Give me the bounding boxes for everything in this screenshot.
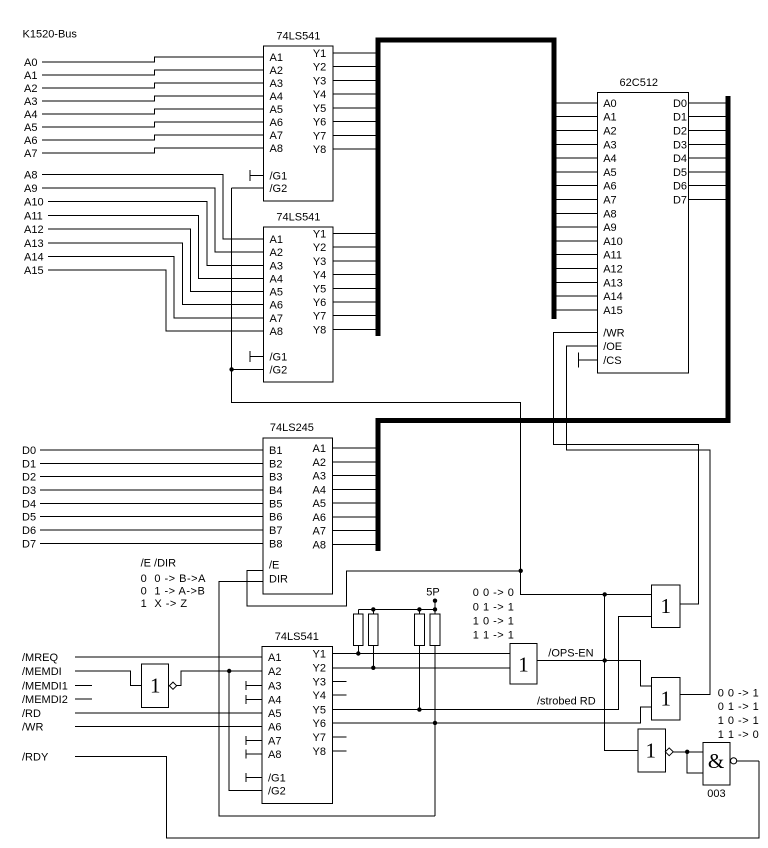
wire U2 Y1 to address bus [333, 233, 376, 235]
signal A9 label and wire [24, 183, 264, 252]
wire U3 A2 from address bus [554, 130, 597, 132]
signal D7 label and wire [22, 538, 263, 550]
OR gate (/WR logic) [652, 585, 680, 627]
signal D0 label and wire [22, 445, 263, 457]
label 5P supply [426, 587, 439, 610]
wire U1 Y7 to address bus [333, 135, 376, 137]
svg-text:Y1: Y1 [313, 229, 326, 241]
svg-text:A1: A1 [270, 234, 283, 246]
svg-text:A13: A13 [603, 277, 623, 289]
svg-text:A5: A5 [270, 287, 283, 299]
svg-text:1: 1 [518, 653, 529, 677]
transceiver U4 74LS245 [263, 422, 333, 594]
resistor R2 (pull-up) [368, 609, 378, 645]
signal A4 label and wire [24, 109, 264, 121]
svg-text:A6: A6 [270, 300, 283, 312]
svg-text:B2: B2 [269, 458, 282, 470]
svg-text:/RD: /RD [22, 708, 41, 720]
junction /OPS-EN output node [603, 658, 607, 662]
signal /MEMDI1 label and stub [22, 680, 92, 692]
svg-text:A0: A0 [24, 57, 37, 69]
wire U5 Y3 stub [333, 680, 347, 682]
svg-text:A3: A3 [24, 96, 37, 108]
svg-text:A3: A3 [268, 681, 281, 693]
signal D3 label and wire [22, 485, 263, 497]
wire U1 Y5 to address bus [333, 107, 376, 109]
svg-text:A3: A3 [270, 260, 283, 272]
svg-text:A15: A15 [24, 265, 44, 277]
signal A7 label and wire [24, 148, 264, 160]
svg-text:D1: D1 [22, 458, 36, 470]
svg-text:A5: A5 [268, 708, 281, 720]
svg-text:62C512: 62C512 [620, 77, 659, 89]
U2 /G1 tie T-bar [250, 351, 264, 362]
wire U1 Y3 to address bus [333, 79, 376, 81]
svg-text:Y1: Y1 [313, 48, 326, 60]
junction pull-up R3 on Y5 [417, 707, 421, 711]
NAND gate 003 [703, 743, 737, 785]
signal /WR label and wire [22, 722, 262, 734]
svg-text:B5: B5 [269, 498, 282, 510]
svg-text:1: 1 [661, 594, 672, 618]
wire node vertical to inverter input [605, 594, 638, 750]
svg-text:/WR: /WR [22, 722, 43, 734]
svg-text:5P: 5P [426, 587, 439, 599]
junction gate-A input node [603, 592, 607, 596]
svg-text:74LS541: 74LS541 [275, 631, 319, 643]
wire NAND output to /RDY feedback [737, 760, 759, 762]
svg-text:A14: A14 [603, 291, 623, 303]
junction pull-up R1 on Y1 [356, 651, 360, 655]
wire U4 A5 to data bus [333, 502, 381, 504]
wire /OE net from gate to U3 [567, 346, 711, 694]
wire U4 A1 to data bus [333, 447, 381, 449]
svg-text:74LS541: 74LS541 [276, 31, 320, 43]
memory U3 62C512 [597, 77, 688, 373]
svg-text:A4: A4 [270, 273, 283, 285]
svg-text:1 1 -> 0: 1 1 -> 0 [718, 729, 760, 741]
signal /RD label and wire [22, 708, 262, 720]
svg-text:0 1 -> A->B: 0 1 -> A->B [141, 585, 206, 597]
buffer U2 74LS541 (second) [264, 212, 334, 383]
signal A15 label and wire [24, 265, 264, 331]
U5 A8 tie T-bar [246, 750, 262, 759]
signal /RDY label and feedback wire [22, 751, 759, 838]
junction pull-up R4 / DIR on Y6 [433, 721, 437, 725]
signal /MEMDI2 label and stub [22, 694, 92, 706]
svg-text:0 0 -> B->A: 0 0 -> B->A [141, 573, 206, 585]
svg-text:A1: A1 [313, 443, 326, 455]
wire U5 Y2 to OR gate input 2 [333, 667, 511, 669]
svg-text:D5: D5 [673, 167, 687, 179]
svg-text:/G1: /G1 [268, 772, 286, 784]
wire U4 A7 to data bus [333, 530, 381, 532]
svg-text:A4: A4 [313, 484, 326, 496]
svg-text:Y4: Y4 [313, 690, 326, 702]
svg-text:/MREQ: /MREQ [22, 652, 59, 664]
svg-text:/OE: /OE [603, 341, 622, 353]
svg-text:A2: A2 [270, 65, 283, 77]
wire U3 A1 from address bus [554, 116, 597, 118]
wire DIR to pull-up column [219, 582, 435, 817]
svg-text:&: & [708, 749, 724, 773]
signal A6 label and wire [24, 135, 264, 147]
svg-text:D2: D2 [673, 126, 687, 138]
svg-text:A5: A5 [603, 167, 616, 179]
svg-text:/E: /E [269, 560, 279, 572]
svg-text:A9: A9 [603, 222, 616, 234]
svg-text:B3: B3 [269, 472, 282, 484]
svg-text:A2: A2 [268, 666, 281, 678]
U5 A3 tie T-bar [246, 681, 262, 690]
svg-text:A6: A6 [268, 722, 281, 734]
signal D6 label and wire [22, 525, 263, 537]
wire U3 A0 from address bus [554, 102, 597, 104]
svg-text:Y8: Y8 [313, 324, 326, 336]
svg-text:D2: D2 [22, 472, 36, 484]
wire U1 Y6 to address bus [333, 121, 376, 123]
svg-text:Y2: Y2 [313, 62, 326, 74]
svg-text:Y7: Y7 [313, 131, 326, 143]
svg-text:A2: A2 [603, 126, 616, 138]
wire U3 A10 from address bus [554, 240, 597, 242]
wire U1 Y1 to address bus [333, 52, 376, 54]
svg-text:D6: D6 [22, 525, 36, 537]
signal A2 label and wire [24, 83, 264, 95]
svg-text:Y2: Y2 [313, 242, 326, 254]
svg-text:A4: A4 [24, 109, 37, 121]
svg-text:1 X -> Z: 1 X -> Z [141, 598, 188, 610]
junction /E joins /G2 net [519, 569, 523, 573]
svg-text:74LS541: 74LS541 [276, 212, 320, 224]
svg-text:D3: D3 [22, 485, 36, 497]
signal A1 label and wire [24, 70, 264, 82]
text truth table NAND [718, 687, 760, 741]
wire inverter to NAND inputs [673, 752, 703, 773]
svg-text:D7: D7 [673, 195, 687, 207]
OR gate /OPS-EN [510, 643, 537, 683]
wire U5 Y5 /strobed RD to gate [333, 617, 652, 710]
svg-text:A14: A14 [24, 251, 44, 263]
svg-text:D3: D3 [673, 139, 687, 151]
svg-text:D7: D7 [22, 538, 36, 550]
wire U3 A12 from address bus [554, 268, 597, 270]
wire /WR net from gate to U3 [554, 332, 699, 604]
svg-text:0 1 -> 1: 0 1 -> 1 [718, 701, 760, 713]
svg-text:Y5: Y5 [313, 705, 326, 717]
junction rail R2 [371, 607, 375, 611]
svg-text:A0: A0 [603, 98, 616, 110]
signal D4 label and wire [22, 498, 263, 510]
wire U3 D5 to data bus [689, 171, 729, 173]
svg-text:D0: D0 [22, 445, 36, 457]
svg-text:A6: A6 [24, 135, 37, 147]
wire U4 A4 to data bus [333, 488, 381, 490]
svg-text:/G1: /G1 [270, 170, 288, 182]
svg-text:003: 003 [707, 788, 725, 800]
wire U3 A6 from address bus [554, 185, 597, 187]
svg-text:A10: A10 [603, 236, 623, 248]
data bus (thick) [378, 96, 728, 551]
wire U3 A5 from address bus [554, 171, 597, 173]
U3 /CS tie T-bar [579, 353, 598, 368]
svg-text:A2: A2 [270, 247, 283, 259]
wire U2 Y3 to address bus [333, 260, 376, 262]
svg-text:A6: A6 [313, 512, 326, 524]
wire R3 bottom to Y5 [418, 645, 420, 709]
signal A14 label and wire [24, 251, 264, 317]
svg-text:/OPS-EN: /OPS-EN [548, 648, 593, 660]
wire U2 Y2 to address bus [333, 246, 376, 248]
wire U3 A14 from address bus [554, 295, 597, 297]
wire U3 D6 to data bus [689, 185, 729, 187]
junction pull-up R2 on Y2 [371, 666, 375, 670]
U5 A4 tie T-bar [246, 695, 262, 704]
wire U5 Y8 stub [333, 750, 347, 752]
svg-text:0 1 -> 1: 0 1 -> 1 [473, 601, 515, 613]
svg-text:1 0 -> 1: 1 0 -> 1 [718, 715, 760, 727]
svg-text:Y4: Y4 [313, 270, 326, 282]
wire /G2 net vertical U1 to U2 [231, 188, 233, 370]
wire inverter output to U5 A2 and /G2 [177, 671, 263, 790]
wire U3 A7 from address bus [554, 199, 597, 201]
wire U1 /G2 stub [232, 187, 264, 189]
svg-text:Y8: Y8 [313, 144, 326, 156]
wire U4 A3 to data bus [333, 475, 381, 477]
wire R4 bottom through Y6 to DIR line [434, 645, 436, 816]
wire R1 bottom to Y1 [357, 645, 359, 653]
svg-text:/MEMDI2: /MEMDI2 [22, 694, 68, 706]
wire U2 /G2 stub [232, 368, 264, 370]
buffer U5 74LS541 (bottom) [262, 631, 332, 804]
svg-text:/G2: /G2 [270, 364, 288, 376]
svg-text:A4: A4 [270, 91, 283, 103]
svg-text:A6: A6 [603, 181, 616, 193]
svg-text:A13: A13 [24, 238, 44, 250]
junction rail R3 [417, 607, 421, 611]
address bus (thick) [378, 40, 554, 336]
svg-text:A8: A8 [270, 143, 283, 155]
resistor R3 (pull-up) [415, 609, 425, 645]
signal A3 label and wire [24, 96, 264, 108]
svg-text:A9: A9 [24, 183, 37, 195]
svg-text:D1: D1 [673, 112, 687, 124]
wire U5 Y4 stub [333, 694, 347, 696]
wire U2 Y5 to address bus [333, 287, 376, 289]
svg-text:A8: A8 [24, 169, 37, 181]
junction rail R4 [433, 607, 437, 611]
svg-text:A12: A12 [24, 224, 44, 236]
signal D1 label and wire [22, 458, 263, 470]
svg-text:/G1: /G1 [270, 352, 288, 364]
wire U4 A6 to data bus [333, 516, 381, 518]
svg-text:/E /DIR: /E /DIR [141, 558, 177, 570]
svg-text:D5: D5 [22, 512, 36, 524]
wire U3 A11 from address bus [554, 254, 597, 256]
svg-text:A1: A1 [24, 70, 37, 82]
wire U4 A8 to data bus [333, 543, 381, 545]
svg-text:/CS: /CS [603, 355, 621, 367]
svg-text:A3: A3 [270, 78, 283, 90]
junction /G2 net [229, 367, 233, 371]
wire /E underpass to /G2 net [247, 570, 521, 606]
svg-text:B4: B4 [269, 485, 282, 497]
signal D5 label and wire [22, 512, 263, 524]
svg-text:1: 1 [661, 687, 672, 711]
svg-text:K1520-Bus: K1520-Bus [23, 29, 78, 41]
svg-text:A7: A7 [603, 195, 616, 207]
signal /MREQ label and wire [22, 652, 262, 664]
signal A8 label and wire [24, 169, 264, 239]
svg-text:A8: A8 [603, 208, 616, 220]
svg-text:A5: A5 [313, 498, 326, 510]
svg-text:Y5: Y5 [313, 283, 326, 295]
wire U3 D4 to data bus [689, 157, 729, 159]
svg-text:Y6: Y6 [313, 297, 326, 309]
svg-text:A12: A12 [603, 264, 623, 276]
inverter gate (/MEMDI) [142, 664, 177, 707]
svg-text:Y7: Y7 [313, 311, 326, 323]
inverter gate (before NAND) [638, 729, 673, 772]
wire U3 A15 from address bus [554, 309, 597, 311]
svg-text:A1: A1 [268, 652, 281, 664]
svg-text:A2: A2 [313, 457, 326, 469]
U1 /G1 tie T-bar [250, 170, 264, 181]
svg-text:/WR: /WR [603, 327, 624, 339]
signal D2 label and wire [22, 472, 263, 484]
svg-text:A2: A2 [24, 83, 37, 95]
wire U3 A4 from address bus [554, 157, 597, 159]
OR gate (/OE logic) [652, 677, 680, 720]
svg-text:D0: D0 [673, 98, 687, 110]
svg-text:A11: A11 [603, 250, 622, 262]
wire U2 Y6 to address bus [333, 301, 376, 303]
wire U1 Y8 to address bus [333, 148, 376, 150]
svg-text:/RDY: /RDY [22, 751, 49, 763]
svg-text:/MEMDI1: /MEMDI1 [22, 680, 68, 692]
svg-text:D4: D4 [673, 153, 687, 165]
svg-text:/MEMDI: /MEMDI [22, 666, 62, 678]
svg-text:1 0 -> 1: 1 0 -> 1 [473, 615, 515, 627]
svg-text:0 0 -> 0: 0 0 -> 0 [473, 587, 515, 599]
svg-text:Y3: Y3 [313, 75, 326, 87]
wire U2 Y4 to address bus [333, 274, 376, 276]
svg-text:A5: A5 [270, 104, 283, 116]
wire pull-up supply rail [358, 608, 435, 610]
svg-text:0 0 -> 1: 0 0 -> 1 [718, 687, 760, 699]
junction NAND input node [685, 750, 689, 754]
wire U2 Y7 to address bus [333, 315, 376, 317]
svg-text:D4: D4 [22, 498, 36, 510]
svg-text:A8: A8 [270, 326, 283, 338]
svg-text:1: 1 [150, 674, 161, 698]
resistor R1 (pull-up) [353, 609, 363, 645]
svg-text:DIR: DIR [269, 574, 288, 586]
svg-text:Y4: Y4 [313, 89, 326, 101]
svg-text:A15: A15 [603, 305, 623, 317]
svg-text:A1: A1 [603, 112, 616, 124]
wire U5 Y7 stub [333, 736, 347, 738]
svg-text:1: 1 [646, 739, 657, 763]
wire /OPS-EN output [537, 660, 652, 686]
signal A5 label and wire [24, 122, 264, 134]
wire U1 Y2 to address bus [333, 66, 376, 68]
svg-text:A1: A1 [270, 52, 283, 64]
U5 /G1 tie T-bar [246, 773, 262, 782]
wire U3 D3 to data bus [689, 143, 729, 145]
svg-text:Y3: Y3 [313, 676, 326, 688]
wire /G2 net routing to gate logic [232, 369, 652, 594]
wire U3 D0 to data bus [689, 102, 729, 104]
wire U3 D1 to data bus [689, 116, 729, 118]
signal A13 label and wire [24, 238, 264, 305]
svg-text:A5: A5 [24, 122, 37, 134]
text truth table /E /DIR [141, 558, 206, 610]
svg-text:/strobed RD: /strobed RD [537, 696, 596, 708]
svg-text:74LS245: 74LS245 [270, 422, 314, 434]
text truth table OR gate [473, 587, 515, 641]
svg-text:D6: D6 [673, 181, 687, 193]
wire U2 Y8 to address bus [333, 328, 376, 330]
svg-text:A8: A8 [268, 749, 281, 761]
svg-text:Y6: Y6 [313, 117, 326, 129]
wire R2 bottom to Y2 [372, 645, 374, 668]
svg-text:A7: A7 [270, 313, 283, 325]
wire U5 Y1 to OR gate input 1 [333, 653, 511, 655]
wire U3 A9 from address bus [554, 226, 597, 228]
svg-text:Y7: Y7 [313, 732, 326, 744]
svg-text:Y8: Y8 [313, 746, 326, 758]
wire U3 A8 from address bus [554, 212, 597, 214]
svg-text:A3: A3 [313, 471, 326, 483]
wire U3 D2 to data bus [689, 130, 729, 132]
svg-text:A7: A7 [268, 735, 281, 747]
signal A12 label and wire [24, 224, 264, 292]
signal A0 label and wire [24, 57, 264, 69]
signal A11 label and wire [24, 210, 264, 278]
svg-text:Y2: Y2 [313, 662, 326, 674]
wire U5 Y6 to gate input [333, 707, 652, 723]
svg-text:/G2: /G2 [268, 785, 286, 797]
svg-text:1 1 -> 1: 1 1 -> 1 [473, 629, 515, 641]
junction inverter output node [227, 669, 231, 673]
wire U4 A2 to data bus [333, 461, 381, 463]
svg-text:Y3: Y3 [313, 256, 326, 268]
wire U1 Y4 to address bus [333, 93, 376, 95]
svg-text:Y1: Y1 [313, 649, 326, 661]
svg-text:A11: A11 [24, 210, 43, 222]
svg-text:A6: A6 [270, 117, 283, 129]
svg-text:B8: B8 [269, 538, 282, 550]
resistor R4 (pull-up) [430, 609, 440, 645]
signal A10 label and wire [24, 197, 264, 266]
svg-text:A8: A8 [313, 539, 326, 551]
svg-text:A7: A7 [24, 148, 37, 160]
svg-text:Y5: Y5 [313, 103, 326, 115]
svg-text:A7: A7 [313, 526, 326, 538]
wire U3 D7 to data bus [689, 199, 729, 201]
buffer U1 74LS541 (top) [264, 31, 334, 202]
wire U3 A13 from address bus [554, 281, 597, 283]
svg-text:A4: A4 [268, 695, 281, 707]
svg-text:B7: B7 [269, 525, 282, 537]
svg-text:A4: A4 [603, 153, 616, 165]
svg-text:A10: A10 [24, 197, 44, 209]
svg-text:/G2: /G2 [270, 183, 288, 195]
svg-text:B1: B1 [269, 445, 282, 457]
wire U3 A3 from address bus [554, 143, 597, 145]
svg-text:Y6: Y6 [313, 718, 326, 730]
